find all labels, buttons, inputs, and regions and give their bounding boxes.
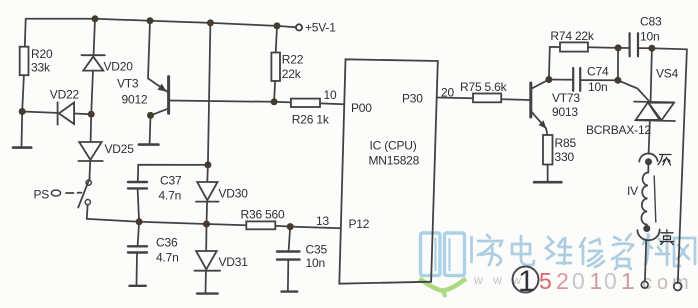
- svg-text:5: 5: [539, 268, 552, 294]
- resistor R20: [20, 47, 29, 75]
- ground left: [13, 146, 31, 149]
- diode VD20: [82, 55, 105, 70]
- svg-text:VD22: VD22: [50, 88, 80, 102]
- wire VT3 collector to ground: [149, 115, 152, 143]
- svg-text:VT73: VT73: [552, 91, 580, 105]
- wire gate J2 to triac: [618, 80, 649, 101]
- svg-text:1: 1: [518, 265, 535, 298]
- wire C35 top lead: [289, 227, 291, 251]
- ground C35: [282, 290, 298, 292]
- wire C37 bottom lead: [138, 189, 140, 222]
- svg-text:P30: P30: [402, 92, 423, 106]
- wire terminal to coil: [647, 165, 649, 172]
- diode VD25: [78, 142, 102, 161]
- wire rail to VD20: [94, 19, 95, 55]
- wire VD25 to switch: [88, 162, 91, 180]
- node R36-C35: [287, 223, 294, 230]
- wire C83 to J4: [638, 47, 652, 49]
- node VD22-VD20-VD25: [88, 111, 95, 118]
- node J4: [648, 45, 655, 52]
- wire top rail: [26, 19, 296, 28]
- watermark char jia: [478, 235, 502, 265]
- svg-text:0: 0: [572, 268, 585, 294]
- svg-text:R26 1k: R26 1k: [292, 113, 330, 127]
- svg-text:330: 330: [555, 150, 575, 164]
- transformer core line: [654, 176, 656, 222]
- watermark char wei: [546, 237, 571, 264]
- svg-text:0: 0: [604, 268, 617, 294]
- watermark stroke sliver: [470, 237, 473, 262]
- svg-text:13: 13: [316, 214, 329, 228]
- ground VT3: [139, 143, 159, 146]
- node VT3 collector: [147, 112, 154, 119]
- svg-text:2: 2: [556, 268, 569, 294]
- capacitor C74: [573, 68, 580, 91]
- terminal circle right rail: [674, 282, 682, 290]
- node J2 gate: [614, 77, 621, 84]
- inductor IV winding: [641, 172, 648, 224]
- svg-text:MN15828: MN15828: [369, 154, 420, 168]
- terminal +5V-1: [296, 24, 302, 30]
- wire VD22 node to ground: [21, 112, 24, 147]
- watermark book icon: [420, 233, 467, 297]
- svg-text:10n: 10n: [640, 30, 659, 44]
- wire VD31 bottom lead: [205, 272, 207, 293]
- svg-text:C36: C36: [156, 236, 178, 250]
- watermark char zi: [612, 234, 633, 269]
- ground VD31: [197, 292, 218, 294]
- wire node to VD25: [90, 114, 93, 142]
- wire bottom rail: [87, 219, 247, 225]
- resistor R26: [291, 99, 320, 107]
- wire R26 to CPU pin10: [320, 102, 344, 105]
- ground R85: [534, 181, 561, 184]
- svg-text:PS: PS: [34, 188, 50, 202]
- wire R74 right to J3: [588, 46, 618, 49]
- svg-text:R20: R20: [31, 47, 53, 61]
- wire J1 up to R74 left: [549, 47, 560, 80]
- wire R20 to VD22 node: [22, 75, 24, 111]
- capacitor C83: [630, 33, 638, 56]
- node VD30-VD31: [203, 221, 210, 228]
- node rail-VD30: [207, 19, 214, 26]
- transistor VT3: [148, 77, 169, 116]
- diode VD22: [58, 102, 75, 124]
- wire VD30 to node F: [206, 202, 209, 224]
- wire VD20 to node: [91, 71, 93, 115]
- wire J4 to right rail: [652, 48, 687, 283]
- svg-text:10: 10: [324, 88, 337, 102]
- svg-text:VT3: VT3: [117, 77, 139, 91]
- wire base line VT3 to R26: [169, 101, 291, 103]
- wire R22 to base node: [274, 81, 275, 102]
- node VD22 left: [19, 108, 26, 115]
- node rail-R22: [274, 22, 281, 29]
- diode VD30: [196, 182, 219, 202]
- watermark char xiu: [580, 238, 604, 267]
- node R22-base: [271, 98, 278, 105]
- svg-text:IC (CPU): IC (CPU): [370, 139, 417, 153]
- wire C74 to J2: [581, 79, 618, 81]
- svg-text:R85: R85: [555, 136, 577, 150]
- svg-text:VD20: VD20: [104, 60, 134, 74]
- wire yellow terminal down: [645, 241, 646, 282]
- triac VS4: [634, 102, 675, 121]
- wire rail to VT3 emitter: [148, 21, 150, 79]
- wire C35 bottom lead: [287, 260, 289, 291]
- wire switch to bottom rail corner: [86, 205, 89, 219]
- capacitor C35: [277, 252, 300, 260]
- svg-text:C83: C83: [640, 15, 662, 29]
- wire coil to yellow terminal: [646, 224, 648, 227]
- node C37-H: [204, 161, 211, 168]
- resistor R74: [560, 42, 588, 51]
- wire C36 bottom lead: [136, 253, 139, 285]
- switch PS actuator dash: [66, 192, 74, 194]
- switch PS contact bottom: [85, 200, 90, 205]
- node J3: [615, 44, 622, 51]
- svg-text:4.7n: 4.7n: [159, 189, 182, 203]
- node C36-C37: [136, 218, 143, 225]
- svg-text:C37: C37: [160, 174, 182, 188]
- wire R75 to VT73 base: [501, 98, 529, 101]
- node rail-VD20: [92, 15, 99, 22]
- wire R85 to ground: [547, 165, 549, 182]
- svg-text:10n: 10n: [306, 256, 325, 270]
- svg-text:C74: C74: [587, 65, 609, 79]
- terminal circle bottom: [641, 281, 648, 288]
- resistor R75: [473, 94, 501, 103]
- watermark circled 1: [513, 267, 539, 293]
- wire J3 to J2: [617, 48, 619, 80]
- svg-text:4.7n: 4.7n: [156, 251, 179, 265]
- transistor VT73: [531, 80, 549, 129]
- capacitor C37: [128, 182, 147, 188]
- diode VD31: [195, 251, 221, 271]
- svg-text:R74 22k: R74 22k: [550, 29, 594, 43]
- wire J4 down to triac: [651, 48, 652, 101]
- resistor R85: [543, 135, 553, 165]
- watermark char dian: [512, 236, 534, 265]
- svg-text:10n: 10n: [588, 80, 607, 94]
- connector grey terminal: [639, 153, 657, 165]
- IC U1 CPU box: [339, 59, 438, 283]
- svg-text:R36 560: R36 560: [241, 208, 285, 222]
- wire left rail upper: [24, 19, 27, 47]
- node rail-VT3: [147, 17, 154, 24]
- label yellow (huang): [661, 230, 674, 245]
- wire J3 to C83: [618, 47, 629, 49]
- svg-text:o: o: [657, 272, 668, 294]
- wire rail to node H: [208, 23, 211, 165]
- svg-text:BCRBAX-12: BCRBAX-12: [586, 123, 651, 137]
- svg-text:R75 5.6k: R75 5.6k: [460, 80, 508, 94]
- svg-text:P12: P12: [349, 217, 370, 231]
- label grey (hui): [658, 155, 671, 166]
- svg-text:C35: C35: [306, 243, 328, 257]
- svg-text:VD30: VD30: [219, 187, 249, 201]
- svg-text:+5V-1: +5V-1: [305, 21, 336, 35]
- resistor R36: [246, 221, 275, 229]
- svg-text:VD25: VD25: [105, 142, 135, 156]
- switch PS contact top: [86, 180, 91, 185]
- wire VD22 right segment: [74, 113, 91, 116]
- wire R36 to pin13: [275, 226, 341, 229]
- wire node H to VD30: [206, 165, 209, 182]
- svg-text:9013: 9013: [552, 105, 578, 119]
- svg-text:VS4: VS4: [656, 67, 679, 81]
- svg-text:33k: 33k: [31, 61, 51, 75]
- resistor R22: [271, 53, 280, 82]
- wire C37 top lead to node H: [138, 165, 208, 182]
- ground C36: [129, 285, 145, 287]
- wire J1 to C74: [549, 79, 573, 81]
- wire triac to grey terminal: [649, 122, 650, 154]
- watermark char liao: [643, 234, 669, 265]
- connector yellow terminal: [637, 225, 659, 240]
- wire node F to VD31: [205, 224, 207, 251]
- wire VD22 left segment: [22, 112, 57, 113]
- svg-text:.: .: [630, 272, 636, 294]
- watermark char wang: [674, 238, 695, 266]
- svg-text:22k: 22k: [282, 67, 302, 81]
- wire rail to R22: [276, 26, 277, 53]
- svg-text:9012: 9012: [122, 93, 148, 107]
- switch PS actuator ellipse: [51, 190, 60, 196]
- wire C36 top lead: [138, 222, 140, 246]
- svg-text:VD31: VD31: [219, 255, 249, 269]
- svg-text:IV: IV: [627, 184, 638, 198]
- svg-text:P00: P00: [351, 101, 372, 115]
- switch PS blade: [78, 178, 90, 208]
- wire CPU pin20 to R75: [437, 97, 473, 100]
- wire VT73 emitter to R85: [546, 128, 547, 135]
- capacitor C36: [128, 246, 147, 252]
- svg-text:w w w: w w w: [473, 273, 525, 287]
- node J1 collector: [545, 76, 552, 83]
- svg-text:20: 20: [441, 86, 454, 100]
- svg-text:1: 1: [590, 268, 603, 294]
- svg-text:R22: R22: [282, 53, 304, 67]
